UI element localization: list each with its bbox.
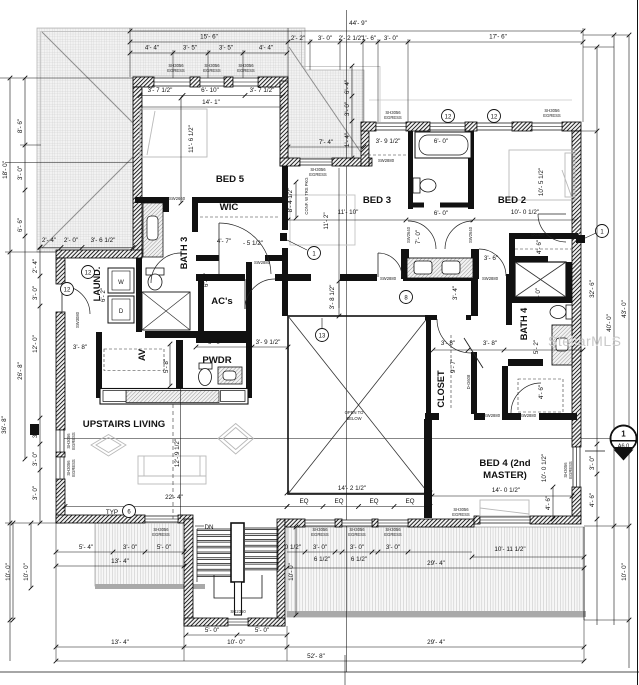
dim bed4 line <box>430 494 575 499</box>
roof edge inner line <box>41 32 381 249</box>
keynote 1 bed2 <box>596 225 609 238</box>
bath4 south wall <box>508 359 543 366</box>
svg-text:BED 4 (2nd: BED 4 (2nd <box>479 458 530 469</box>
svg-text:4'- 6": 4'- 6" <box>545 496 552 510</box>
left col 12-0 etc <box>32 245 42 526</box>
svg-text:3'- 4": 3'- 4" <box>452 286 459 300</box>
svg-text:5'- 0": 5'- 0" <box>255 627 269 634</box>
bed2 nook bottom wall <box>509 256 548 262</box>
armchair right <box>218 424 254 455</box>
svg-text:44'- 9": 44'- 9" <box>349 20 367 27</box>
svg-text:DN: DN <box>204 524 214 531</box>
bottom wall mid seg d <box>408 519 474 527</box>
svg-text:CONF. W TRS PKG: CONF. W TRS PKG <box>304 177 309 214</box>
svg-text:AC's: AC's <box>211 296 232 307</box>
svg-text:UPSTAIRS LIVING: UPSTAIRS LIVING <box>83 419 165 430</box>
keynote 1 bed2 leader <box>583 233 596 239</box>
closet left wall <box>426 320 431 413</box>
top ext line c <box>309 39 311 70</box>
left deck door <box>145 516 178 522</box>
top ext line j <box>207 50 209 78</box>
svg-text:OPEN TO: OPEN TO <box>345 410 364 415</box>
stair center rail <box>235 582 242 615</box>
bed5 hall door leaf <box>218 223 220 274</box>
svg-text:3'- 0": 3'- 0" <box>589 456 596 470</box>
svg-text:W: W <box>118 280 124 286</box>
svg-text:6'- 6": 6'- 6" <box>17 218 24 232</box>
closet rod dashed <box>450 335 452 410</box>
svg-text:BED 5: BED 5 <box>216 174 245 185</box>
svg-text:CLOSET: CLOSET <box>436 370 446 408</box>
egress bed4 right <box>563 461 573 479</box>
svg-text:10'- 5 1/2": 10'- 5 1/2" <box>538 168 545 196</box>
closet top wall seg b <box>466 315 471 320</box>
svg-text:3'- 0": 3'- 0" <box>344 102 351 116</box>
svg-text:A6.0: A6.0 <box>618 444 630 450</box>
dim bottom left 13-4 <box>54 558 187 568</box>
svg-text:3'- 0": 3'- 0" <box>350 544 364 551</box>
svg-text:3'- 8": 3'- 8" <box>441 340 455 347</box>
svg-text:12: 12 <box>491 114 498 120</box>
bottom wall mid seg b <box>335 519 342 527</box>
svg-text:1: 1 <box>621 430 626 439</box>
svg-text:EGRESS: EGRESS <box>452 512 470 517</box>
svg-text:12: 12 <box>445 114 452 120</box>
top ext line i <box>172 50 174 78</box>
bath4 hall wall <box>502 366 508 420</box>
svg-text:7'- 0": 7'- 0" <box>415 230 422 244</box>
egress label top 1 <box>167 63 185 73</box>
svg-text:BED 3: BED 3 <box>363 195 391 206</box>
svg-text:EGRESS: EGRESS <box>384 532 402 537</box>
svg-text:13'- 4": 13'- 4" <box>111 639 129 646</box>
svg-text:8'- 4 1/2": 8'- 4 1/2" <box>287 188 294 213</box>
living centerline dashed <box>172 404 174 519</box>
open-to-below cross line 2 <box>288 316 429 494</box>
av pwdr wall <box>176 340 183 390</box>
svg-text:6'- 0": 6'- 0" <box>434 138 448 145</box>
bed5 top wall seg c <box>224 77 233 87</box>
svg-text:BATH 3: BATH 3 <box>179 237 189 270</box>
bed3 bed2 top wall seg c <box>465 122 477 131</box>
dim 10-11half <box>470 546 587 559</box>
svg-text:8'- 6": 8'- 6" <box>17 119 24 133</box>
bed5 window 1 <box>154 78 190 86</box>
window tag 12 tub2 <box>488 110 501 123</box>
av cabinet dashed <box>104 349 164 371</box>
svg-text:EGRESS: EGRESS <box>152 532 170 537</box>
svg-text:5'- 0": 5'- 0" <box>205 627 219 634</box>
bed5 top wall seg d <box>258 77 288 87</box>
svg-text:2'- 4": 2'- 4" <box>42 237 56 244</box>
dim left row line <box>38 245 136 250</box>
svg-text:10'- 0": 10'- 0" <box>621 563 628 581</box>
stair treads right flight <box>245 527 278 529</box>
svg-text:3'- 5": 3'- 5" <box>219 45 233 52</box>
bath4 chase bottom wall <box>509 297 572 303</box>
wic left wall <box>192 197 198 232</box>
bath2 nook dashed <box>363 154 408 156</box>
svg-text:SW2880: SW2880 <box>482 276 499 281</box>
svg-text:4'- 7": 4'- 7" <box>217 238 231 245</box>
keynote 1 hall leader <box>287 240 307 250</box>
dim bottom left row1 <box>54 544 187 554</box>
svg-text:10'- 0": 10'- 0" <box>227 639 245 646</box>
bed5 bed outline <box>140 109 207 157</box>
corridor south wall seg a <box>196 274 245 281</box>
dim deck windows <box>281 544 472 554</box>
bed4 left wall <box>424 419 432 518</box>
bed2 bed outline <box>509 150 575 200</box>
bath2 toilet <box>413 178 436 193</box>
dim bottom row 13-4 10-0 29-4 <box>54 639 587 649</box>
svg-text:13'- 4": 13'- 4" <box>111 558 129 565</box>
svg-text:EGRESS: EGRESS <box>384 115 402 120</box>
svg-text:12: 12 <box>64 287 71 293</box>
bath2 tub <box>415 132 471 158</box>
bed5 top wall seg b <box>190 77 200 87</box>
bed5 left exterior wall <box>133 87 142 258</box>
right col 40-0 <box>606 33 616 625</box>
dim row3 bed5 <box>128 45 290 56</box>
dim 29-4 upper <box>285 560 587 570</box>
roof valley line <box>289 47 362 154</box>
acs right wall <box>246 262 252 338</box>
svg-text:BATH 4: BATH 4 <box>519 307 529 340</box>
svg-text:3'- 8 1/2": 3'- 8 1/2" <box>329 285 336 310</box>
svg-text:11'- 6 1/2": 11'- 6 1/2" <box>188 125 195 153</box>
closet door leaf <box>464 338 483 368</box>
media wall hatch center <box>126 391 219 403</box>
bed4 north wall seg b <box>474 413 485 420</box>
left exterior wall seg a <box>56 258 65 284</box>
bed2 nook door leaf <box>538 213 566 215</box>
egress deck 1 <box>311 527 329 537</box>
dim roof verticals <box>344 64 354 161</box>
right ext line y620 <box>584 619 629 621</box>
pwdr toilet <box>199 363 213 386</box>
bath4 chase top wall <box>509 256 515 300</box>
section marker a6.0 <box>611 426 637 461</box>
bottom wall left seg a <box>56 515 145 523</box>
av left wall <box>96 332 102 398</box>
bath3 toilet <box>146 268 164 290</box>
egress bed3 nook <box>384 110 402 120</box>
svg-text:6'- 4": 6'- 4" <box>344 80 351 94</box>
bed5 window 2 <box>200 78 224 86</box>
svg-text:43'- 0": 43'- 0" <box>621 300 628 318</box>
bath2 tub window 2 <box>477 123 512 130</box>
left ext line y163 <box>5 162 133 164</box>
svg-text:5'- 8": 5'- 8" <box>163 359 170 373</box>
bed3 dim vline <box>338 168 340 308</box>
svg-text:3'- 0": 3'- 0" <box>123 544 137 551</box>
stair dn leader <box>195 525 204 527</box>
bed4 wardrobe dashed <box>518 379 563 412</box>
egress deck 2 <box>348 527 366 537</box>
egress bed2 top <box>543 108 561 118</box>
bed2 nook door arc <box>538 214 566 242</box>
media wall outline <box>100 389 248 405</box>
svg-text:4'- 4": 4'- 4" <box>259 45 273 52</box>
svg-text:10'- 0 1/2": 10'- 0 1/2" <box>541 454 548 482</box>
dim stairs 5-0 <box>184 627 290 637</box>
svg-text:29'- 4": 29'- 4" <box>427 560 445 567</box>
hall stair wall lower <box>282 248 288 316</box>
bed3 bed2 top wall seg a <box>361 122 376 131</box>
keynote 1 wall marker <box>576 235 585 243</box>
corridor south wall seg b <box>275 274 311 281</box>
bath2 south wall seg a <box>408 203 424 208</box>
top ext line d <box>339 39 341 70</box>
egress connector <box>309 167 327 177</box>
bottom ext line x287 <box>286 626 288 661</box>
egress bottom left <box>152 527 170 537</box>
svg-text:3'- 7 1/2": 3'- 7 1/2" <box>148 87 173 94</box>
hall stair wall <box>282 166 288 230</box>
bath2 hall door left arc <box>408 221 436 249</box>
bed5 hall door arc <box>219 223 271 274</box>
left living window 2 <box>56 457 64 479</box>
bottom wall mid seg a <box>285 519 305 527</box>
svg-text:3'- 0": 3'- 0" <box>32 286 39 300</box>
svg-text:3'- 0": 3'- 0" <box>32 424 39 438</box>
svg-text:3'- 0": 3'- 0" <box>386 544 400 551</box>
left living window 1 <box>56 430 64 452</box>
svg-text:WIC: WIC <box>220 202 239 213</box>
svg-text:10'- 0": 10'- 0" <box>23 563 30 581</box>
svg-text:4'- 4": 4'- 4" <box>145 45 159 52</box>
svg-text:3'- 6 1/2": 3'- 6 1/2" <box>91 237 116 244</box>
bed4 north wall seg c <box>503 413 521 420</box>
laundry acs south wall <box>145 331 252 338</box>
svg-text:11'- 10": 11'- 10" <box>338 209 359 216</box>
svg-text:- 5 1/2": - 5 1/2" <box>243 240 263 247</box>
svg-text:StellarMLS: StellarMLS <box>548 333 621 349</box>
svg-text:29'- 4": 29'- 4" <box>427 639 445 646</box>
dim deck 10-0 <box>288 525 298 618</box>
bottom ext line x584 <box>583 620 585 661</box>
connector window <box>300 159 332 165</box>
dim 44-9 <box>128 20 586 33</box>
rear deck shadow <box>287 611 586 617</box>
section line vertical <box>346 10 348 672</box>
bath3 shower <box>142 292 190 330</box>
bed4 north wall seg a <box>425 413 439 420</box>
laundry entry door arc <box>62 286 90 314</box>
left col bottom 10-0 a <box>5 521 15 623</box>
bottom wall mid seg c <box>372 519 378 527</box>
bed3 ghost bed outline <box>290 195 355 245</box>
svg-text:EQ: EQ <box>299 498 308 505</box>
svg-text:3'- 7 1/2": 3'- 7 1/2" <box>250 87 275 94</box>
svg-text:3'- 0": 3'- 0" <box>313 544 327 551</box>
dim living 22-4 <box>63 494 290 509</box>
top ext line h <box>582 28 584 122</box>
bed4 right window <box>573 447 580 487</box>
left ext line y76 <box>0 77 133 79</box>
right ext line y131 <box>581 130 597 132</box>
shared vanity <box>407 258 473 278</box>
svg-text:32'- 6": 32'- 6" <box>589 280 596 298</box>
top ext line g <box>407 39 409 122</box>
corridor south wall seg e <box>506 274 511 281</box>
svg-text:SW3080: SW3080 <box>75 311 80 328</box>
bed2 nook left wall <box>509 239 515 262</box>
bed3 bed2 dim line y220 <box>286 218 579 223</box>
svg-text:52'- 8": 52'- 8" <box>307 653 325 660</box>
left exterior wall seg e <box>56 479 65 523</box>
bed2 egress window <box>532 123 562 130</box>
closet door arc <box>437 319 471 353</box>
keynote typ 6 <box>123 505 136 518</box>
svg-text:SW2640: SW2640 <box>468 226 473 243</box>
svg-text:3'- 0": 3'- 0" <box>32 486 39 500</box>
svg-text:TYP: TYP <box>106 509 118 516</box>
left exterior wall seg c <box>56 452 65 457</box>
svg-text:10'- 0": 10'- 0" <box>288 563 295 581</box>
bath4 chase cross 2 <box>515 262 566 297</box>
svg-text:EQ: EQ <box>334 498 343 505</box>
top ext line k <box>242 50 244 78</box>
deck window 2 <box>342 520 372 526</box>
svg-text:EGRESS: EGRESS <box>311 532 329 537</box>
acs door arc <box>245 279 275 309</box>
left balcony deck <box>95 523 185 586</box>
left exterior wall seg d <box>64 284 66 312</box>
window tag 12 laund <box>82 266 95 279</box>
right col 32-6 <box>589 45 599 625</box>
svg-text:6'- 2": 6'- 2" <box>100 288 107 302</box>
keynote 1 hall <box>308 247 321 260</box>
bottom center line <box>344 655 346 685</box>
svg-text:BED 2: BED 2 <box>498 195 526 206</box>
bed5 window 3 <box>233 78 258 86</box>
bath2 south wall seg b <box>440 203 474 208</box>
left ext line y252 <box>5 251 56 253</box>
stair treads left flight <box>197 528 231 530</box>
roof hip line 2 <box>42 157 133 248</box>
top ext line b <box>287 28 289 81</box>
deck window 3 <box>378 520 408 526</box>
keynote 13 <box>316 329 329 342</box>
svg-text:1'- 4": 1'- 4" <box>344 133 351 147</box>
open-to-below shaft <box>288 316 429 494</box>
bath4 toilet <box>550 305 572 319</box>
connector south wall seg b <box>332 158 372 166</box>
svg-text:5'- 4": 5'- 4" <box>79 544 93 551</box>
bed3 bed2 top wall seg d <box>512 122 532 131</box>
bed5 south wall seg a <box>135 197 169 203</box>
bed4 bottom wall seg a <box>474 516 480 524</box>
left step wall <box>56 250 142 258</box>
top ext line a <box>129 28 131 77</box>
svg-text:3'- 5": 3'- 5" <box>183 45 197 52</box>
bed4 north wall seg d <box>539 413 577 420</box>
svg-text:EGRESS: EGRESS <box>568 461 573 479</box>
deck window 1 <box>305 520 335 526</box>
connector south wall seg a <box>280 158 300 166</box>
bath4 left wall <box>506 281 512 325</box>
svg-text:3'- 9 1/2": 3'- 9 1/2" <box>256 339 281 346</box>
svg-text:MASTER): MASTER) <box>483 470 527 481</box>
svg-text:3'- 0": 3'- 0" <box>17 166 24 180</box>
svg-text:14'- 2 1/2": 14'- 2 1/2" <box>338 485 366 492</box>
wic south wall seg b <box>265 255 288 261</box>
vanity wall left <box>401 249 409 279</box>
svg-text:EGRESS: EGRESS <box>167 68 185 73</box>
stair left wall <box>184 519 193 626</box>
egress left wall 2 <box>66 459 76 477</box>
dim av 5-8 <box>163 342 172 389</box>
svg-text:5'- 2": 5'- 2" <box>533 340 540 354</box>
bottom wall left seg b <box>178 515 193 523</box>
bed4 bottom wall seg b <box>530 516 581 524</box>
pwdr right wall <box>246 338 252 398</box>
svg-text:EGRESS: EGRESS <box>203 68 221 73</box>
bath3 laundry wall <box>136 258 142 332</box>
svg-text:12'- 9 1/2": 12'- 9 1/2" <box>174 439 181 467</box>
connector right wall upper <box>280 81 288 166</box>
svg-text:13: 13 <box>319 333 326 339</box>
svg-text:36'- 8": 36'- 8" <box>1 416 8 434</box>
bed3 bed2 top wall seg e <box>562 122 581 131</box>
bath2 left wall <box>408 131 413 209</box>
window tag 12 left <box>61 283 74 296</box>
rear deck edge line <box>583 527 585 620</box>
right exterior wall seg a <box>572 131 581 447</box>
svg-text:PWDR: PWDR <box>202 355 231 366</box>
svg-text:EQ: EQ <box>405 498 414 505</box>
dim roof 7-4 <box>286 139 367 149</box>
stair bottom window <box>228 619 248 625</box>
svg-text:6'- 0": 6'- 0" <box>208 339 222 346</box>
dim pwdr row <box>194 339 291 349</box>
media wall left box <box>103 391 126 402</box>
section marker leader <box>585 450 605 452</box>
dim bed5 14-1 <box>138 99 286 109</box>
open-to-below cross line 1 <box>288 316 429 494</box>
svg-text:3'- 0": 3'- 0" <box>384 35 398 42</box>
acs door leaf <box>244 279 246 309</box>
top ext line e <box>362 39 364 123</box>
dim bottom 52-8 <box>54 653 587 663</box>
left ext line y145 <box>20 144 41 146</box>
svg-text:18'- 0": 18'- 0" <box>2 161 9 179</box>
bath4 shower vanity <box>552 325 572 365</box>
svg-text:EGRESS: EGRESS <box>309 172 327 177</box>
svg-text:12: 12 <box>85 270 92 276</box>
svg-text:11'- 2": 11'- 2" <box>323 212 330 229</box>
svg-text:AV: AV <box>137 348 147 361</box>
egress label top 3 <box>237 63 255 73</box>
svg-text:10'- 11 1/2": 10'- 11 1/2" <box>494 546 525 553</box>
right exterior wall seg b <box>572 487 581 518</box>
stair bottom wall seg b <box>248 618 285 626</box>
dim closet row line <box>431 348 586 353</box>
svg-text:15'- 6": 15'- 6" <box>200 34 218 41</box>
dim bed5 11-6 <box>179 96 195 206</box>
svg-text:6'- 0": 6'- 0" <box>434 210 448 217</box>
corridor south wall seg d <box>403 274 471 281</box>
washer <box>108 268 134 293</box>
closet top wall seg a <box>425 315 437 320</box>
svg-text:7'- 4": 7'- 4" <box>319 139 333 146</box>
left exterior wall seg b <box>56 312 65 430</box>
svg-text:3'- 8": 3'- 8" <box>73 344 87 351</box>
svg-text:3'- 0": 3'- 0" <box>318 35 332 42</box>
bath2 right wall <box>468 131 474 209</box>
